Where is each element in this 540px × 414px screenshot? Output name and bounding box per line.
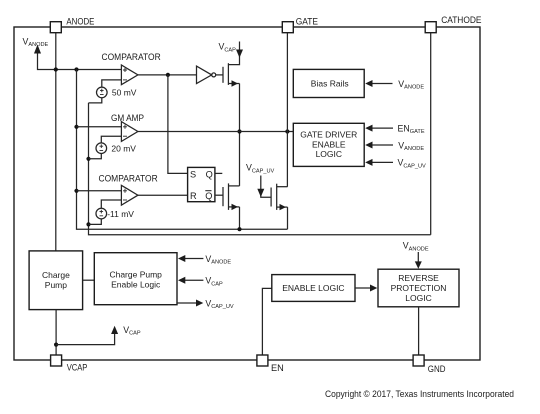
svg-text:VCAP: VCAP [67, 363, 88, 373]
svg-text:ANODE: ANODE [66, 16, 94, 26]
REVERSE PROTECTION LOGIC box [378, 269, 459, 307]
svg-text:-11 mV: -11 mV [107, 209, 134, 219]
svg-text:GATE DRIVER: GATE DRIVER [300, 130, 357, 140]
wire 50mV source bottom to cathode rail [89, 98, 102, 103]
comparator U4 - input marker [123, 199, 127, 201]
pin pad ANODE [50, 22, 61, 33]
transistor Q1 source with arrow [228, 83, 239, 85]
Bias Rails box [293, 69, 364, 97]
svg-text:ENGATE: ENGATE [398, 123, 425, 135]
arrow EN_GATE into gate driver box [370, 127, 393, 129]
Gate Driver Enable Logic box [293, 123, 364, 166]
Charge Pump box [29, 251, 83, 310]
comparator U4 triangle [121, 185, 137, 205]
svg-text:Q: Q [206, 169, 213, 179]
svg-text:R: R [190, 191, 197, 201]
node junction rail to GM amp + input [74, 125, 78, 129]
inverter U2 bubble [212, 73, 216, 77]
svg-text:CATHODE: CATHODE [441, 15, 481, 25]
arrowhead V_CAP_UV down [257, 189, 264, 197]
transistor Q3 source with arrow [277, 206, 288, 208]
transistor Q1 (top FET) gate bar [222, 67, 224, 83]
node junction rail to comparator2 + input [74, 189, 78, 193]
arrowhead V_CAP down into Q1 drain [236, 50, 243, 58]
GM amp + input marker [123, 125, 127, 129]
svg-text:EN: EN [271, 363, 284, 373]
pin pad GATE [282, 22, 293, 33]
svg-text:VCAP_UV: VCAP_UV [246, 163, 275, 175]
wire GATE pad down to Q3 drain [286, 33, 288, 187]
svg-text:20 mV: 20 mV [111, 144, 136, 154]
svg-text:VANODE: VANODE [23, 36, 49, 48]
pin pad EN [257, 355, 268, 366]
source V1 plus/minus marks [100, 89, 104, 95]
svg-text:GM AMP: GM AMP [111, 113, 144, 123]
transistor Q2 (left bottom FET) gate bar [222, 187, 224, 206]
wire V_CAP_UV arrow to Q3 gate [261, 176, 271, 198]
wire reverse protection logic to GND pad [418, 307, 420, 355]
svg-text:VANODE: VANODE [398, 140, 424, 152]
wire Q1 source down to left FET drain (x=239.5) [239, 84, 241, 186]
transistor Q1 channel [227, 63, 229, 85]
node junction GM output at x239.5 [237, 129, 241, 133]
wire comparator U4 output to latch R input [138, 194, 188, 196]
GM amp - input marker [123, 135, 127, 137]
svg-text:PROTECTION: PROTECTION [391, 283, 447, 293]
node junction rail x76.5 y69.5 [74, 67, 78, 71]
svg-text:COMPARATOR: COMPARATOR [102, 52, 161, 62]
arrow V_ANODE into gate driver box [370, 144, 393, 146]
svg-text:Charge Pump: Charge Pump [109, 269, 162, 279]
arrow V_CAP_UV out of CP enable logic [177, 302, 199, 304]
svg-text:Q: Q [205, 191, 212, 201]
svg-text:REVERSE: REVERSE [398, 273, 439, 283]
ENABLE LOGIC box [272, 275, 355, 302]
node junction comparator1 output branch [166, 73, 170, 77]
node junction ANODE line x55.8 y69.5 [54, 67, 58, 71]
arrow V_ANODE into CP enable logic [182, 258, 203, 260]
arrowhead V_ANODE up [34, 45, 41, 54]
svg-text:Charge: Charge [42, 270, 70, 280]
wire anode rail (x=76.5 down, then right along y=229.2 to FET source corner) [77, 70, 288, 230]
offset source V2 20mV circle [96, 143, 107, 154]
transistor Q2 source with arrow [229, 206, 240, 208]
arrow V_CAP_UV into gate driver box [370, 161, 393, 163]
comparator U1 + input marker [123, 68, 127, 72]
svg-text:VCAP: VCAP [219, 42, 237, 54]
svg-text:S: S [190, 169, 196, 179]
svg-text:Enable Logic: Enable Logic [111, 279, 161, 289]
svg-text:ENABLE: ENABLE [312, 139, 346, 149]
svg-text:VCAP_UV: VCAP_UV [205, 298, 234, 310]
IC outline border [14, 27, 480, 360]
wire latch Qbar output to left FET gate [215, 194, 223, 196]
svg-text:VANODE: VANODE [403, 241, 429, 253]
comparator U1 - input marker [123, 79, 127, 81]
node junction VCAP tap [54, 343, 58, 347]
GM amp U3 triangle [121, 122, 137, 142]
svg-text:Pump: Pump [45, 280, 67, 290]
wire Q2 source down to anode wire [239, 207, 241, 229]
SR latch U5 box [188, 167, 215, 201]
source V3 plus/minus marks [100, 210, 104, 216]
offset source V1 50mV circle [97, 87, 108, 98]
node junction Q2 source on anode wire [237, 227, 241, 231]
wire 20mV source bottom to cathode rail [89, 154, 102, 159]
svg-text:VCAP: VCAP [205, 276, 223, 288]
node junction gate line x287.4 [285, 129, 289, 133]
transistor Q2 channel [228, 183, 230, 210]
arrow V_ANODE down into reverse protection logic [417, 252, 419, 264]
offset source V3 -11mV circle [96, 208, 107, 219]
wire Q3 source down to anode wire corner [287, 207, 289, 229]
pin pad CATHODE [425, 22, 436, 33]
node junction 20mV bottom on rail [86, 157, 90, 161]
transistor Q1 drain [228, 42, 239, 65]
source V2 plus/minus marks [100, 144, 104, 150]
svg-text:50 mV: 50 mV [112, 88, 137, 98]
wire V_ANODE sense arrow to comparator + line (y=69.5) [38, 48, 122, 70]
Charge Pump Enable Logic box [94, 253, 177, 305]
wire GM amp + input [77, 126, 122, 128]
svg-text:VCAP_UV: VCAP_UV [398, 158, 427, 170]
wire ANODE pad to charge pump (vertical x=55.8) [55, 33, 57, 251]
arrow enable logic to reverse protection logic [355, 287, 373, 289]
svg-text:COMPARATOR: COMPARATOR [99, 174, 158, 184]
svg-text:Copyright © 2017, Texas Instru: Copyright © 2017, Texas Instruments Inco… [325, 389, 514, 399]
wire charge pump to enable logic [83, 279, 95, 281]
comparator U1 triangle [121, 65, 137, 85]
wire latch Q output stub [215, 172, 222, 174]
wire GM amp output to gate driver box (y=131.5) [138, 131, 293, 133]
wire V_CAP tap with up arrow [56, 328, 115, 345]
arrow V_CAP into CP enable logic [182, 279, 203, 281]
wire comparator U1 output to inverter, with branch to latch S [138, 74, 197, 76]
transistor Q3 channel [276, 184, 278, 210]
svg-text:VANODE: VANODE [398, 79, 424, 91]
wire comparator U4 - input to -11mV source [101, 200, 121, 208]
transistor Q3 drain [277, 186, 288, 188]
svg-text:ENABLE LOGIC: ENABLE LOGIC [282, 283, 344, 293]
pin pad GND [413, 355, 424, 366]
wire GM amp - input to 20mV source [101, 136, 121, 143]
svg-text:LOGIC: LOGIC [316, 149, 342, 159]
pin pad VCAP [51, 355, 62, 366]
svg-text:GND: GND [428, 364, 446, 374]
comparator U4 + input marker [123, 189, 127, 193]
wire CATHODE pad down to cathode rail [430, 33, 432, 235]
svg-text:VANODE: VANODE [205, 254, 231, 266]
wire EN pad up to enable logic box [262, 288, 271, 354]
svg-text:Bias Rails: Bias Rails [311, 79, 349, 89]
transistor Q3 (right bottom FET) gate bar [270, 188, 272, 207]
transistor Q2 drain [229, 185, 240, 187]
node junction -11mV bottom on rail [86, 222, 90, 226]
svg-text:LOGIC: LOGIC [405, 293, 431, 303]
arrow V_ANODE into Bias Rails [370, 83, 393, 85]
wire -11mV source bottom to cathode rail [89, 219, 102, 225]
svg-text:VCAP: VCAP [123, 325, 141, 337]
wire comparator2 + input [77, 190, 122, 192]
wire charge pump bottom to VCAP pad [55, 310, 57, 355]
wire comparator U1 - input to 50mV source [102, 80, 122, 87]
wire cathode reference rail (x=88.5 down to y=234.8 right to cathode line) [89, 103, 431, 235]
wire branch down to latch S input [168, 75, 188, 173]
inverter U2 triangle [197, 66, 212, 83]
svg-text:GATE: GATE [296, 16, 318, 26]
wire inverter output to top FET gate [216, 74, 223, 76]
